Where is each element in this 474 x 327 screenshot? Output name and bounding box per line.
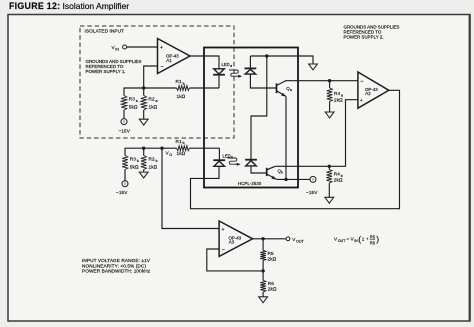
optocoupler HCPL-2530 package box xyxy=(204,48,298,188)
text note: grounds and supplies power supply 2 xyxy=(344,25,400,40)
formula VOUT = VIN (1 + R5/R6) xyxy=(334,234,379,246)
resistor R3b 5k xyxy=(122,156,139,181)
wire A3 inverting feedback loop xyxy=(207,249,263,271)
svg-text:+: + xyxy=(360,98,363,104)
svg-text:A3: A3 xyxy=(229,240,235,245)
svg-text:1kΩ: 1kΩ xyxy=(177,151,186,156)
svg-text:R5: R5 xyxy=(370,234,376,239)
svg-text:−15V: −15V xyxy=(116,190,128,195)
svg-text:a: a xyxy=(290,88,292,92)
terminal VIN xyxy=(112,45,127,51)
resistor R2a 1k xyxy=(141,88,158,119)
figure title xyxy=(9,1,129,11)
transistor Qa xyxy=(277,80,293,96)
svg-text:R2: R2 xyxy=(149,97,155,102)
transistor Qb xyxy=(267,166,283,179)
node R5 R6 junction xyxy=(261,269,264,272)
svg-text:ISOLATED INPUT: ISOLATED INPUT xyxy=(85,29,125,34)
svg-text:): ) xyxy=(376,234,379,244)
wire Qa emitter down to emitter node xyxy=(285,96,287,179)
svg-text:1kΩ: 1kΩ xyxy=(149,104,158,109)
node feedback junction a xyxy=(142,86,145,89)
wire A3 output to VOUT xyxy=(253,238,287,240)
ground below R2b xyxy=(139,172,148,178)
svg-text:R1: R1 xyxy=(176,79,182,84)
resistor R3a 5k xyxy=(121,96,138,119)
svg-text:Isolation Amplifier: Isolation Amplifier xyxy=(63,1,130,11)
svg-text:−15V: −15V xyxy=(306,190,318,195)
svg-text:LED: LED xyxy=(222,62,230,67)
node R2b junction xyxy=(142,147,145,150)
wire A1 inverting input to feedback node xyxy=(144,66,158,88)
svg-text:b: b xyxy=(183,141,185,145)
LED LEDa xyxy=(213,62,232,75)
wire A1 output to LEDa anode xyxy=(190,56,219,69)
resistor R1a 1k (horizontal) xyxy=(144,79,219,99)
wire Qb collector to A2 bottom input xyxy=(275,100,358,167)
op-amp U A3 (OP-43) xyxy=(219,221,253,256)
svg-text:R2: R2 xyxy=(149,157,155,162)
svg-text:a: a xyxy=(183,81,185,85)
ground below R4b xyxy=(325,197,334,203)
svg-text:R3: R3 xyxy=(130,157,136,162)
svg-text:R3: R3 xyxy=(129,97,135,102)
svg-text:−15V: −15V xyxy=(119,129,131,134)
wire VIN to A1 + input xyxy=(127,46,158,48)
node VO xyxy=(160,147,172,157)
node R4a junction xyxy=(328,79,331,82)
svg-text:POWER SUPPLY 2.: POWER SUPPLY 2. xyxy=(344,35,384,40)
text label: ISOLATED INPUT xyxy=(85,29,125,34)
op-amp U A1 (OP-43) xyxy=(158,39,191,74)
wire PDb anode to Qb base xyxy=(251,166,267,173)
terminal -15V supply 2 xyxy=(306,176,318,195)
resistor R4a 2k xyxy=(327,81,343,112)
svg-text:(: ( xyxy=(358,234,361,244)
svg-text:b: b xyxy=(156,159,158,163)
svg-text:O: O xyxy=(169,153,172,157)
svg-text:=: = xyxy=(347,237,350,242)
ground supply 2 (top, rail a) xyxy=(309,64,318,70)
svg-text:HCPL-2530: HCPL-2530 xyxy=(238,181,262,186)
resistor R1b 1k (horizontal) xyxy=(176,139,220,156)
op-amp U A2 (OP-43) xyxy=(358,72,389,108)
resistor R6 2k xyxy=(260,271,277,297)
svg-text:OUT: OUT xyxy=(338,239,346,243)
svg-text:1 +: 1 + xyxy=(362,237,369,242)
svg-text:+: + xyxy=(222,227,225,233)
wire VO down to A3 + input xyxy=(162,148,219,228)
svg-text:b: b xyxy=(281,171,283,175)
svg-text:b: b xyxy=(231,156,233,160)
svg-text:R4: R4 xyxy=(334,91,340,96)
svg-text:a: a xyxy=(136,99,138,103)
svg-text:OUT: OUT xyxy=(296,239,304,243)
photodiode PDb xyxy=(245,160,257,166)
wire junction to R3a top xyxy=(124,88,144,96)
wire rail a (PDa cathode to ground) xyxy=(250,56,313,64)
wire Qb emitter to -15V terminal xyxy=(277,178,310,180)
svg-text:2kΩ: 2kΩ xyxy=(268,287,277,292)
svg-text:5kΩ: 5kΩ xyxy=(130,164,139,169)
svg-text:R6: R6 xyxy=(268,281,274,286)
svg-text:2kΩ: 2kΩ xyxy=(334,178,343,183)
terminal -15V supply 1 (below R3a) xyxy=(119,119,131,134)
wire b-node horizontal (R3b to LEDb via R1b) xyxy=(125,148,177,155)
wire Qa collector to A2 top input xyxy=(286,79,358,81)
terminal VOUT xyxy=(286,237,304,243)
svg-text:5kΩ: 5kΩ xyxy=(129,104,138,109)
ground below R2a xyxy=(139,119,148,125)
terminal -15V supply 1 (below R3b) xyxy=(116,181,128,195)
svg-text:POWER BANDWIDTH: 100kHz: POWER BANDWIDTH: 100kHz xyxy=(82,269,151,274)
wire A2 output down and around to LEDb anode xyxy=(191,90,400,208)
node rail a junction xyxy=(265,54,268,57)
text specs: input voltage range / nonlinearity / power bandwidth xyxy=(82,258,151,273)
svg-text:+: + xyxy=(160,45,163,51)
svg-text:2kΩ: 2kΩ xyxy=(334,97,343,102)
resistor R2b 1k xyxy=(141,148,158,172)
svg-text:R5: R5 xyxy=(268,251,274,256)
svg-text:R4: R4 xyxy=(334,172,340,177)
resistor R5 2k xyxy=(260,239,276,271)
node emitter junction xyxy=(284,178,287,181)
wire rail-a node down to PDb cathode xyxy=(251,56,267,160)
svg-text:R1: R1 xyxy=(176,139,182,144)
svg-text:b: b xyxy=(137,159,139,163)
svg-text:R6: R6 xyxy=(370,240,376,245)
svg-text:a: a xyxy=(156,99,158,103)
wire R1b to LEDb cathode xyxy=(218,148,220,160)
LED LEDb xyxy=(213,154,233,167)
svg-text:A2: A2 xyxy=(365,91,371,96)
svg-text:−: − xyxy=(222,247,225,253)
dashed isolated-input boundary box xyxy=(80,26,234,138)
photodiode PDa xyxy=(245,56,257,74)
svg-text:1kΩ: 1kΩ xyxy=(177,94,186,99)
wire PDa anode to Qa base xyxy=(250,74,276,88)
optical coupling arrow channel a xyxy=(229,70,242,78)
wire LEDa cathode to R1a xyxy=(218,75,220,88)
node R4b junction xyxy=(328,165,331,168)
svg-text:−: − xyxy=(360,79,363,85)
resistor R4b 2k xyxy=(327,166,343,197)
node A3 output junction xyxy=(261,237,264,240)
svg-text:IN: IN xyxy=(115,47,119,51)
svg-text:LED: LED xyxy=(223,154,231,159)
svg-text:A1: A1 xyxy=(166,58,172,63)
ground below R6 xyxy=(259,297,268,303)
svg-text:a: a xyxy=(230,64,232,68)
ground below R4a xyxy=(325,112,334,118)
svg-text:POWER SUPPLY 1.: POWER SUPPLY 1. xyxy=(86,69,126,74)
text note: grounds and supplies power supply 1 xyxy=(86,59,142,74)
optical coupling arrow channel b xyxy=(228,158,241,166)
svg-text:1kΩ: 1kΩ xyxy=(149,164,158,169)
svg-text:FIGURE 12:: FIGURE 12: xyxy=(9,1,60,11)
svg-text:2kΩ: 2kΩ xyxy=(268,257,277,262)
svg-text:−: − xyxy=(161,64,164,70)
